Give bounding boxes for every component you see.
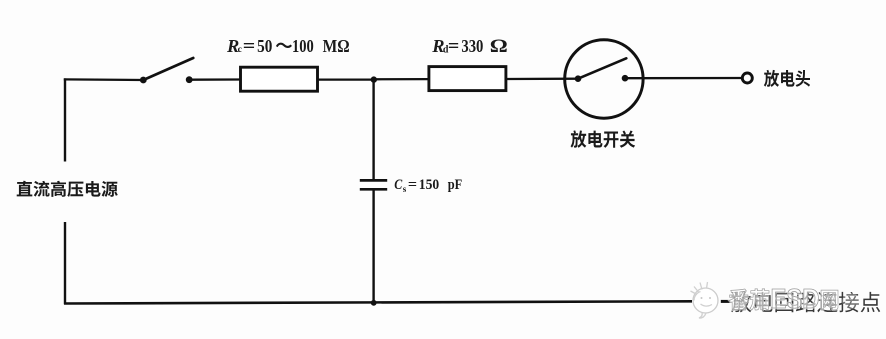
label Cs : C with subscript s	[394, 177, 462, 194]
wire: top rail from corner to charge switch	[64, 78, 143, 81]
label 放电开关	[571, 130, 636, 147]
wire: node to resistor Rd	[374, 78, 428, 81]
discharge switch blade	[578, 58, 626, 78]
capacitor Cs top plate	[360, 179, 387, 182]
wire: Rc to node	[318, 78, 374, 80]
svg-text:=: =	[448, 36, 459, 57]
wire: capacitor Cs to bottom rail	[372, 190, 374, 303]
ground connection label 放电回路连接点 (dark)	[731, 292, 880, 313]
label 放电头	[764, 70, 810, 87]
watermark halo 番茄	[729, 289, 769, 310]
svg-text:C: C	[394, 177, 403, 193]
discharge switch right contact dot	[622, 75, 629, 82]
resistor Rd box	[429, 67, 506, 91]
svg-text:Ω: Ω	[490, 36, 508, 57]
svg-text:=: =	[243, 36, 256, 57]
svg-text:ESD: ESD	[771, 283, 820, 314]
junction dot capacitor/bottom rail	[371, 300, 377, 306]
watermark tomato logo	[691, 282, 719, 318]
wire: left vertical lower segment	[64, 222, 66, 304]
watermark halo 网	[821, 290, 838, 310]
watermark outline 网	[821, 290, 838, 310]
label Rc: tilde	[277, 44, 291, 47]
svg-text:c: c	[238, 45, 242, 55]
wire: discharge switch to discharge tip	[625, 77, 742, 79]
charge switch blade	[143, 58, 193, 80]
wire: Rd to discharge switch	[506, 78, 578, 81]
svg-text:330: 330	[461, 36, 483, 56]
wire: node down to capacitor Cs	[372, 80, 374, 180]
svg-text:pF: pF	[448, 177, 463, 193]
discharge switch circle	[565, 40, 643, 118]
svg-text:150: 150	[419, 177, 439, 193]
discharge tip terminal circle	[742, 73, 752, 83]
svg-text:s: s	[403, 184, 407, 194]
charge switch left contact dot	[140, 77, 147, 84]
svg-text:50: 50	[257, 36, 272, 56]
light blotch over 接	[842, 293, 860, 309]
label Rd : R with subscript d	[431, 36, 508, 57]
capacitor Cs bottom plate	[360, 188, 387, 191]
svg-text:=: =	[408, 177, 417, 193]
watermark outline 番茄	[729, 289, 769, 310]
label Rc : R with subscript c	[226, 36, 350, 57]
svg-text:MΩ: MΩ	[323, 36, 350, 56]
wire stub before ground label	[721, 300, 730, 303]
discharge switch left contact dot	[575, 75, 582, 82]
wire: charge switch to resistor Rc	[189, 78, 240, 80]
node junction dot (Rc/Rd/Cs)	[371, 76, 377, 82]
voltage source label 直流高压电源	[17, 181, 118, 197]
resistor Rc box	[241, 67, 318, 91]
bottom ground rail	[64, 301, 692, 303]
svg-text:100: 100	[292, 36, 314, 56]
charge switch right contact dot	[186, 76, 193, 83]
wire: left vertical upper segment	[64, 78, 66, 161]
